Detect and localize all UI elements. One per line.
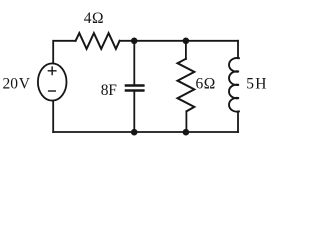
wire 6ohm top lead — [185, 41, 187, 59]
node dot top-left junction — [131, 38, 138, 45]
plus sign — [48, 67, 56, 74]
wire capacitor top lead — [133, 41, 135, 84]
wire top middle — [120, 40, 238, 42]
svg-text:Ω: Ω — [92, 10, 104, 27]
node dot top-right junction — [183, 38, 190, 45]
wire top-left (source to resistor) — [53, 41, 75, 64]
inductor L 5H coil — [229, 58, 239, 112]
node dot bottom-right junction — [183, 129, 190, 136]
minus sign — [49, 90, 56, 92]
svg-text:V: V — [19, 76, 31, 93]
node dot bottom-left junction — [131, 129, 138, 136]
wire bottom — [53, 131, 238, 133]
wire bottom-left (bottom wire up to source) — [52, 101, 54, 132]
svg-text:F: F — [108, 82, 117, 99]
wire 6ohm bottom lead — [185, 111, 187, 132]
resistor R 4ohm zigzag — [76, 33, 120, 49]
svg-text:H: H — [255, 76, 266, 93]
svg-text:Ω: Ω — [204, 75, 216, 92]
capacitor C 8F plates — [126, 86, 143, 91]
wire top-right corner to inductor — [237, 41, 239, 58]
resistor R 6ohm zigzag — [178, 59, 195, 112]
svg-text:5: 5 — [246, 76, 254, 93]
voltage source V 20V circle — [38, 63, 67, 100]
wire inductor bottom lead — [237, 111, 239, 132]
svg-text:4: 4 — [84, 10, 92, 27]
wire capacitor bottom lead — [133, 92, 135, 132]
svg-text:6: 6 — [196, 75, 204, 92]
svg-text:20: 20 — [3, 76, 19, 93]
